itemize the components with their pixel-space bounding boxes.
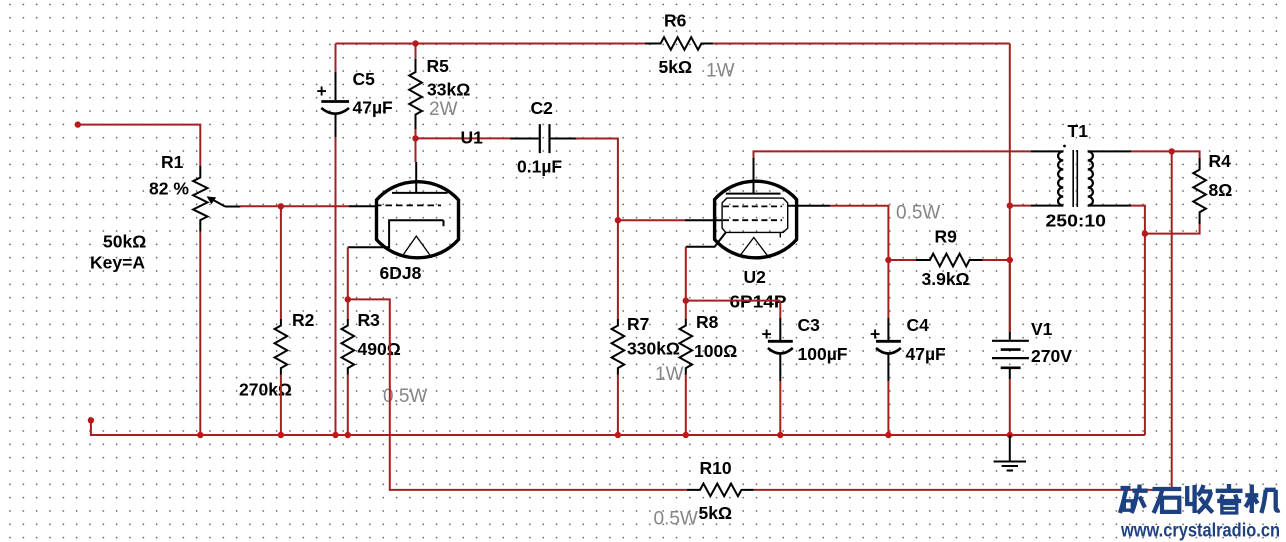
wire R8 top [685, 301, 687, 319]
vacuum tube U1 6DJ8 [348, 128, 483, 284]
wire C5 bottom to rail [335, 137, 337, 435]
wire R4 bottom [1145, 224, 1200, 234]
svg-text:330kΩ: 330kΩ [627, 339, 680, 359]
capacitor C2 [510, 98, 577, 177]
resistor R5 [409, 44, 470, 139]
wire R7 bottom to rail [617, 375, 619, 436]
svg-text:47µF: 47µF [906, 344, 947, 364]
svg-text:R1: R1 [161, 152, 184, 172]
wire secondary top to R4 [1131, 151, 1200, 158]
wire B+ vertical [1009, 44, 1011, 332]
wire top rail from C5 [336, 43, 645, 45]
wire feedback vertical to R10 [754, 151, 1172, 490]
svg-text:Key=A: Key=A [90, 253, 145, 273]
wire cathode junction to C3 [686, 300, 781, 302]
svg-text:R5: R5 [427, 56, 450, 76]
svg-text:T1: T1 [1068, 121, 1089, 141]
svg-text:R3: R3 [358, 310, 381, 330]
node rail junction R1 [197, 432, 203, 438]
node transformer primary bottom junction [1007, 202, 1013, 208]
resistor R9 [888, 203, 1009, 290]
wire R1 bottom to ground rail [199, 232, 201, 435]
svg-text:+: + [762, 324, 772, 344]
svg-text:100µF: 100µF [798, 344, 848, 364]
node input terminal [75, 121, 81, 127]
svg-text:250:10: 250:10 [1046, 211, 1107, 231]
wire U2 cathode down [685, 247, 687, 301]
transformer T1 [1031, 121, 1131, 231]
svg-text:C4: C4 [907, 315, 930, 335]
svg-text:5kΩ: 5kΩ [699, 503, 733, 523]
node U2 cathode junction [683, 297, 689, 303]
svg-text:R10: R10 [700, 458, 732, 478]
wire R2 bottom to rail [280, 375, 282, 436]
resistor R6 [645, 11, 735, 82]
svg-text:8Ω: 8Ω [1209, 180, 1233, 200]
node rail junction C4 [885, 432, 891, 438]
resistor R8 [680, 312, 738, 375]
svg-text:R9: R9 [935, 227, 958, 247]
svg-text:1W: 1W [706, 61, 735, 82]
wire secondary bottom to rail [1144, 234, 1146, 435]
wire R2 top [280, 206, 282, 319]
svg-text:0.5W: 0.5W [896, 203, 940, 224]
svg-text:5kΩ: 5kΩ [659, 57, 693, 77]
svg-text:490Ω: 490Ω [358, 339, 401, 359]
svg-text:82 %: 82 % [149, 179, 189, 199]
wire feedback from U1 cathode to R10 [348, 299, 687, 490]
node bottom-left terminal [88, 417, 94, 423]
node rail junction V1 [1007, 432, 1013, 438]
capacitor C4 [870, 315, 946, 381]
node secondary bottom junction [1142, 230, 1148, 236]
svg-text:2W: 2W [429, 99, 458, 120]
wire primary bottom [1010, 205, 1031, 207]
resistor R7 [612, 314, 684, 385]
svg-text:+: + [870, 324, 880, 344]
wire R7 top [617, 220, 619, 319]
ground [994, 435, 1026, 471]
svg-text:R8: R8 [696, 312, 719, 332]
battery V1 [992, 260, 1072, 435]
wire R8 bottom to rail [685, 375, 687, 436]
node rail junction C3 [777, 432, 783, 438]
wire U1 anode [415, 138, 417, 162]
node rail junction R3 [345, 432, 351, 438]
wire U2 screen to C4/R9 [830, 206, 888, 260]
resistor R3 [342, 310, 428, 407]
svg-text:0.5W: 0.5W [654, 509, 698, 530]
wire top rail R6 to B+ corner [713, 43, 1010, 45]
svg-text:U2: U2 [744, 267, 767, 287]
svg-text:1W: 1W [655, 364, 684, 385]
svg-text:C3: C3 [798, 315, 821, 335]
wire R1 wiper to U1 grid [240, 205, 349, 207]
vacuum tube U2 6P14P [685, 158, 830, 312]
svg-text:R2: R2 [292, 310, 315, 330]
svg-text:www.crystalradio.cn: www.crystalradio.cn [1120, 521, 1280, 542]
svg-text:C2: C2 [531, 98, 554, 118]
resistor R2 [239, 310, 315, 400]
node rail junction R7 [615, 432, 621, 438]
wire C3 bottom to rail [779, 381, 781, 435]
node R2 top junction [278, 203, 284, 209]
wire C2 left [416, 137, 510, 139]
node R9 right / B+ junction [1007, 257, 1013, 263]
node rail junction R8 [683, 432, 689, 438]
wire input to R1 top [78, 125, 201, 166]
node R5 top junction [412, 40, 418, 46]
svg-text:V1: V1 [1031, 319, 1053, 339]
resistor R4 [1193, 151, 1232, 224]
svg-text:U1: U1 [461, 128, 484, 148]
wire C4 bottom to rail [887, 381, 889, 435]
svg-text:R4: R4 [1209, 151, 1232, 171]
svg-text:R6: R6 [664, 11, 687, 31]
wire secondary bottom [1131, 206, 1145, 234]
node R9 left junction [885, 257, 891, 263]
capacitor C5 [317, 44, 394, 138]
wire R3 bottom to rail [347, 375, 349, 436]
svg-text:0.1µF: 0.1µF [517, 157, 562, 177]
wire R3 top [347, 299, 349, 319]
node R5 bottom / U1 anode junction [412, 135, 418, 141]
svg-text:+: + [317, 81, 327, 101]
resistor R10 [654, 458, 754, 530]
watermark crystalradio logo [1120, 484, 1280, 513]
potentiometer R1 [90, 152, 240, 273]
svg-text:C5: C5 [353, 69, 376, 89]
svg-text:270V: 270V [1031, 346, 1072, 366]
svg-text:47µF: 47µF [353, 98, 394, 118]
wire grid junction to U2 [618, 219, 685, 221]
svg-text:100Ω: 100Ω [694, 341, 737, 361]
svg-text:6DJ8: 6DJ8 [380, 263, 422, 283]
svg-text:R7: R7 [627, 314, 649, 334]
wire U2 anode to transformer primary [754, 151, 1032, 158]
svg-text:270kΩ: 270kΩ [239, 380, 292, 400]
capacitor C3 [762, 301, 848, 381]
svg-text:3.9kΩ: 3.9kΩ [922, 269, 970, 289]
svg-text:33kΩ: 33kΩ [427, 80, 470, 100]
node rail junction R2 [278, 432, 284, 438]
node U1 cathode junction [345, 296, 351, 302]
wire C2 right to U2 grid junction [576, 139, 618, 221]
node feedback takeoff junction [1169, 148, 1175, 154]
node U2 grid / R7 junction [615, 217, 621, 223]
node rail junction C5 [332, 432, 338, 438]
svg-text:50kΩ: 50kΩ [103, 232, 146, 252]
wire C4 top [887, 260, 889, 318]
wire ground rail [91, 420, 1145, 435]
wire U1 cathode down [347, 247, 349, 299]
